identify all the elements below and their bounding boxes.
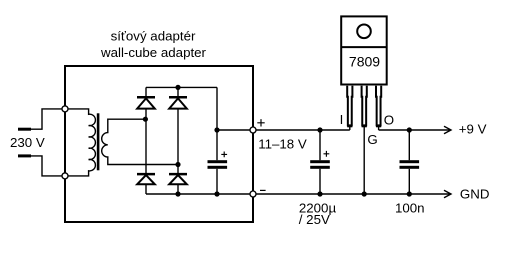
svg-text:O: O (384, 113, 394, 128)
svg-text:wall-cube adapter: wall-cube adapter (100, 45, 207, 60)
svg-text:síťový adaptér: síťový adaptér (111, 29, 196, 44)
transformer T1 core (97, 113, 100, 170)
plus mark of internal capacitor (221, 152, 227, 158)
wire regulator ground leg to GND rail (363, 127, 365, 194)
svg-text:/ 25V: / 25V (299, 212, 330, 227)
junction dot output rail at 100n (407, 127, 412, 132)
electrolytic capacitor 2200u bottom wire (319, 169, 321, 194)
capacitor 100n top wire (408, 130, 410, 160)
terminal circle minus output (250, 191, 256, 197)
svg-text:G: G (367, 132, 377, 147)
mains plug prong top (18, 128, 31, 131)
GND rail from minus terminal to arrow (253, 193, 451, 195)
regulator leg 2 (ground) (362, 86, 367, 126)
regulator leg 1 (input) (347, 86, 352, 130)
junction dot GND rail at 2200u (317, 191, 322, 196)
svg-text:230 V: 230 V (10, 135, 45, 150)
junction dot minus rail at internal cap (214, 191, 219, 196)
plus rail outside box to regulator input (253, 129, 350, 131)
wire left column AC node down to D3 (145, 119, 147, 173)
smoothing capacitor bottom wire (216, 169, 218, 194)
transformer T1 primary winding (65, 109, 95, 176)
svg-text:I: I (340, 112, 344, 127)
junction dot plus node at internal cap (214, 127, 219, 132)
transformer T1 secondary winding (102, 119, 178, 164)
electrolytic capacitor 2200u top wire (319, 130, 321, 160)
diode D1 (top-left) (137, 97, 155, 108)
label plus at terminal (257, 119, 264, 126)
wire below D1 to AC node (145, 109, 147, 120)
smoothing capacitor plates (208, 160, 228, 169)
terminal circle mains bottom (62, 173, 68, 179)
diode D4 (bottom-right) (169, 174, 187, 184)
junction dot top rail at D2 (175, 85, 180, 90)
wire plug bottom to terminal (31, 156, 65, 176)
smoothing capacitor inside adapter: top wire (216, 130, 218, 160)
junction dot GND rail at 100n (407, 191, 412, 196)
svg-text:7809: 7809 (349, 53, 380, 69)
wire plug top to terminal (31, 109, 65, 129)
regulator tab divider (341, 46, 387, 48)
junction dot secondary top to bridge (143, 117, 148, 122)
wire AC node 2 down to D4 (177, 165, 179, 174)
wire below D3 to minus rail (145, 184, 147, 194)
regulator mounting hole (357, 25, 371, 39)
wire below D2 to AC node 2 (177, 109, 179, 165)
plus mark of 2200u capacitor (324, 151, 330, 157)
svg-text:11–18 V: 11–18 V (258, 136, 307, 151)
mains plug prong bottom (18, 154, 31, 157)
regulator U1 body (341, 16, 387, 84)
wire above diode D2 (177, 87, 179, 96)
capacitor 100n bottom wire (408, 169, 410, 194)
wire top rail down to plus node (216, 87, 218, 130)
minus rail inside box (146, 193, 253, 195)
bridge top rail wire (146, 86, 217, 88)
terminal circle plus output (250, 127, 256, 133)
junction dot GND rail at regulator ground (362, 191, 367, 196)
junction dot plus rail at 2200u (317, 127, 322, 132)
electrolytic capacitor 2200u plates (310, 160, 330, 169)
svg-text:100n: 100n (395, 201, 425, 216)
junction dot secondary bottom at D2/D4 column (175, 162, 180, 167)
capacitor 100n plates (400, 160, 420, 169)
wire above diode D1 (145, 87, 147, 96)
regulator leg 3 (output) (376, 86, 381, 130)
svg-text:+9 V: +9 V (459, 121, 487, 136)
wire below D4 to minus rail (177, 184, 179, 194)
arrow head +9V output (444, 126, 451, 134)
plus rail inside box to terminal (217, 129, 253, 131)
terminal circle mains top (62, 106, 68, 112)
label minus at terminal (260, 189, 266, 191)
arrow head GND output (444, 190, 451, 198)
svg-text:GND: GND (460, 187, 490, 202)
junction dot D4 at minus rail (175, 191, 180, 196)
output rail from regulator to arrow (379, 129, 451, 131)
diode D2 (top-right) (169, 97, 187, 108)
enclosure box of wall adapter (65, 66, 253, 222)
diode D3 (bottom-left) (137, 174, 155, 184)
